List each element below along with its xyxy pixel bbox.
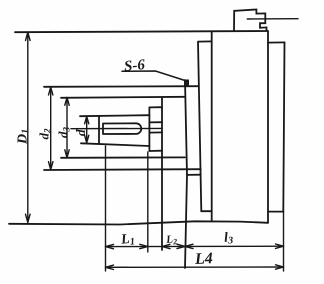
keyway slot bbox=[103, 123, 141, 134]
svg-text:d3: d3 bbox=[56, 127, 72, 139]
svg-text:l3: l3 bbox=[224, 230, 234, 247]
L4 arrows bbox=[106, 265, 284, 270]
l3 arrows bbox=[185, 244, 284, 249]
extension line L left (x105.5) bbox=[105, 146, 107, 271]
rear housing bbox=[268, 42, 285, 211]
L2 arrows bbox=[162, 244, 185, 249]
svg-text:L1: L1 bbox=[119, 231, 135, 248]
dimension row 2 (L4) line bbox=[106, 266, 284, 268]
centerline bbox=[71, 127, 162, 129]
step face bbox=[148, 107, 150, 151]
right extension line (x283.5) bbox=[283, 212, 285, 271]
body top line with D1 extension bbox=[15, 31, 268, 32]
d3 cylinder front face with extension down bbox=[161, 97, 163, 250]
body bottom D1 extension line bbox=[9, 221, 268, 224]
L1 arrows bbox=[106, 244, 148, 249]
dimension d3 line bbox=[65, 98, 69, 158]
shaft top with d extension bbox=[80, 115, 149, 116]
shaft end face bbox=[98, 116, 100, 144]
d3 bottom line bbox=[61, 156, 185, 158]
svg-text:D1: D1 bbox=[16, 129, 32, 145]
hub bottom line and gasket bottom bbox=[44, 168, 201, 171]
svg-text:S-6: S-6 bbox=[123, 57, 146, 75]
dimension row 1 line bbox=[106, 245, 284, 247]
dimension D1 line bbox=[26, 32, 31, 222]
S-6 leader line bbox=[122, 71, 185, 81]
svg-text:L4: L4 bbox=[194, 250, 214, 268]
svg-text:L2: L2 bbox=[165, 233, 178, 247]
terminal block bbox=[234, 10, 267, 31]
dimension d line bbox=[85, 116, 89, 143]
S-6 gasket mark bbox=[185, 80, 189, 86]
flange plate bbox=[198, 41, 212, 211]
shaft bottom with d extension bbox=[81, 143, 149, 146]
d3 top line bbox=[61, 97, 185, 98]
step bottom bbox=[149, 150, 162, 152]
step inner lines bbox=[149, 122, 162, 132]
hub front face with extension line down bbox=[185, 80, 187, 268]
dimension d2 line bbox=[49, 87, 53, 170]
extension line L1 right (x147.8) bbox=[147, 152, 149, 252]
svg-text:d: d bbox=[73, 129, 88, 136]
hub top line bbox=[44, 85, 199, 88]
lead wire bbox=[247, 18, 298, 20]
motor body front box bbox=[212, 31, 268, 222]
svg-text:d2: d2 bbox=[37, 128, 53, 140]
step top bbox=[149, 106, 162, 108]
